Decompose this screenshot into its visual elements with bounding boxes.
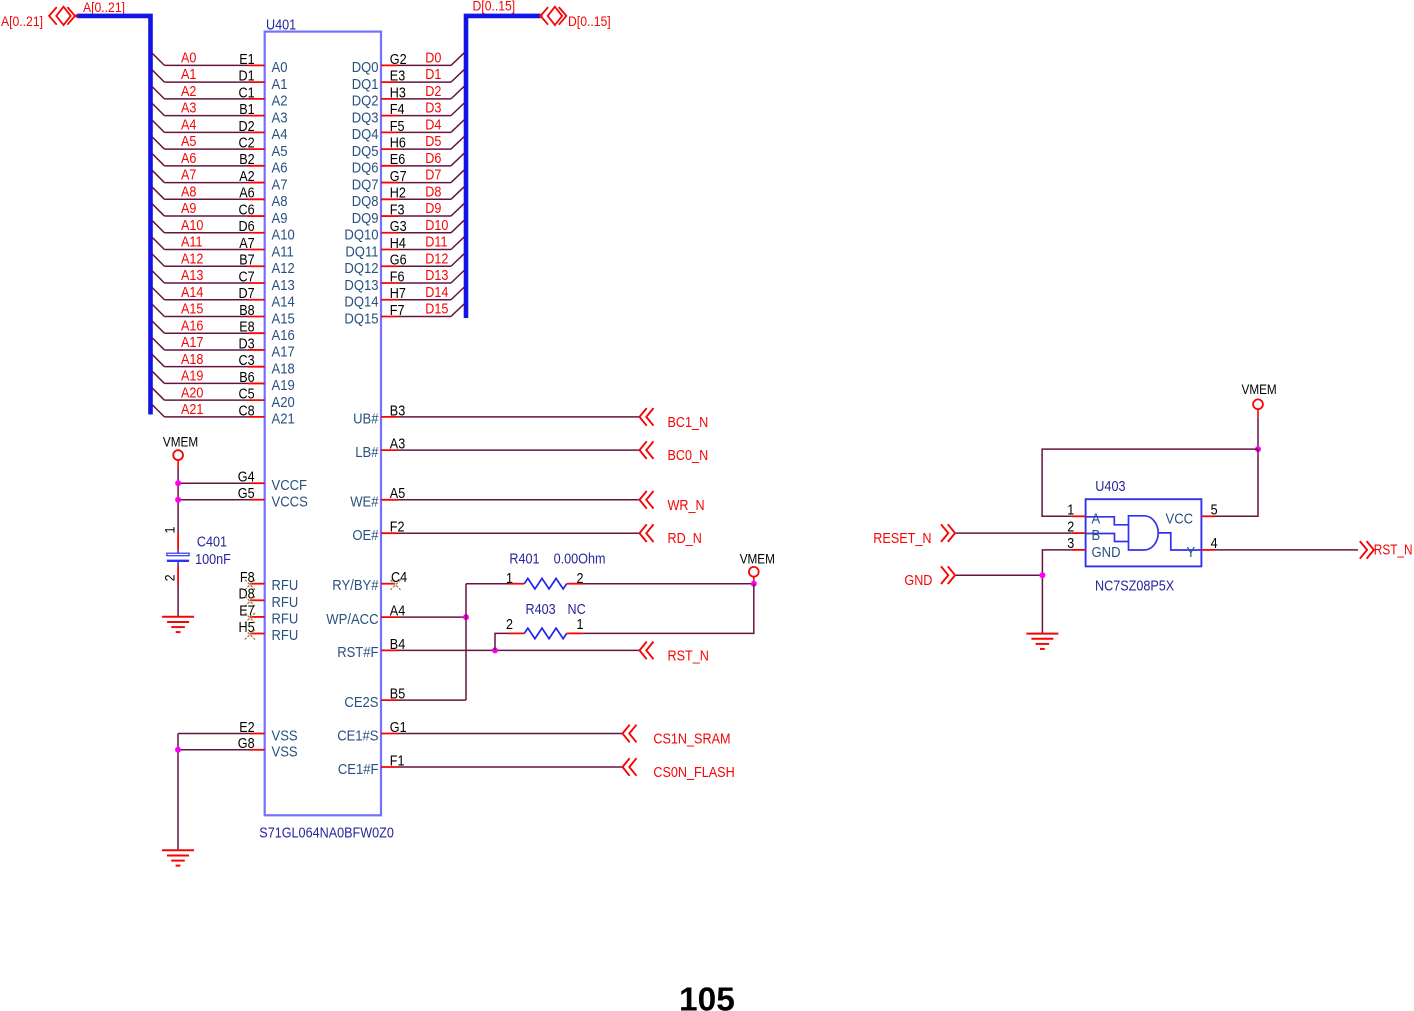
svg-text:DQ3: DQ3	[352, 109, 379, 126]
junction R401 pin2 - VMEM	[751, 581, 757, 587]
ground (below U403)	[1026, 634, 1058, 649]
svg-text:D7: D7	[239, 286, 255, 302]
port CS1N_SRAM	[623, 725, 731, 748]
svg-text:C3: C3	[239, 353, 255, 369]
port BC1_N	[640, 408, 709, 431]
wire R403 pin2 to RST#F net	[495, 633, 509, 650]
svg-text:B2: B2	[239, 152, 254, 168]
svg-text:2: 2	[1067, 519, 1074, 535]
svg-text:VSS: VSS	[272, 744, 298, 761]
svg-text:G3: G3	[390, 219, 407, 235]
pin A10 (D6) wire + bus entry	[152, 218, 295, 244]
svg-text:A13: A13	[272, 277, 295, 294]
svg-text:DQ2: DQ2	[352, 93, 379, 110]
page number 105	[679, 981, 735, 1011]
pin A8 (A6) wire + bus entry	[152, 184, 288, 210]
svg-text:G6: G6	[390, 253, 407, 269]
svg-text:DQ13: DQ13	[344, 277, 378, 294]
AND gate U403 NC7SZ08P5X (body)	[1067, 479, 1217, 595]
pin A17 (D3) wire + bus entry	[152, 335, 295, 361]
svg-text:GND: GND	[904, 573, 932, 589]
svg-text:5: 5	[1211, 503, 1218, 519]
svg-text:D3: D3	[239, 336, 255, 352]
junction VMEM - VCCF	[175, 480, 181, 486]
svg-text:A16: A16	[181, 318, 203, 334]
wire pin 4 to port RST_N	[1215, 549, 1358, 551]
svg-text:A4: A4	[181, 117, 196, 133]
svg-text:1: 1	[577, 617, 584, 633]
pin DQ13 (F6) wire + bus entry	[344, 268, 464, 294]
svg-text:A[0..21]: A[0..21]	[1, 13, 43, 29]
wire RESET_N to pin 2	[956, 532, 1072, 534]
svg-text:A9: A9	[181, 201, 196, 217]
svg-text:A3: A3	[181, 101, 196, 117]
svg-text:A10: A10	[181, 218, 203, 234]
port RESET_N (input)	[873, 524, 955, 547]
svg-text:D2: D2	[239, 119, 255, 135]
svg-text:H4: H4	[390, 236, 406, 252]
svg-text:RST_N: RST_N	[1374, 542, 1413, 558]
svg-text:DQ9: DQ9	[352, 210, 379, 227]
svg-text:A21: A21	[272, 411, 295, 428]
svg-text:DQ12: DQ12	[344, 260, 378, 277]
port WR_N	[640, 491, 705, 514]
svg-text:A6: A6	[239, 186, 254, 202]
port RD_N	[640, 524, 702, 547]
svg-text:A13: A13	[181, 268, 203, 284]
pin DQ1 (E3) wire + bus entry	[352, 67, 465, 93]
svg-text:D1: D1	[239, 69, 255, 85]
port BC0_N	[640, 441, 709, 464]
svg-text:A15: A15	[272, 310, 295, 327]
svg-text:C5: C5	[239, 387, 255, 403]
svg-text:A17: A17	[181, 335, 203, 351]
svg-text:CS0N_FLASH: CS0N_FLASH	[653, 765, 734, 781]
svg-text:E1: E1	[239, 52, 254, 68]
svg-text:A2: A2	[239, 169, 254, 185]
port CS0N_FLASH	[623, 758, 735, 781]
svg-text:D12: D12	[425, 251, 448, 267]
pin DQ9 (F3) wire + bus entry	[352, 201, 465, 227]
junction WP/ACC - R401 net	[463, 614, 469, 620]
pin DQ15 (F7) wire + bus entry	[344, 302, 464, 328]
svg-text:F5: F5	[390, 119, 405, 135]
pin A2 (C1) wire + bus entry	[152, 84, 288, 110]
pin RST#F (B4) wire to port RST_N	[337, 637, 639, 661]
pin LB# (A3) wire to port BC0_N	[355, 437, 639, 461]
svg-text:F7: F7	[390, 303, 405, 319]
pin DQ14 (H7) wire + bus entry	[344, 285, 464, 311]
svg-text:B6: B6	[239, 370, 254, 386]
svg-text:A15: A15	[181, 302, 203, 318]
pin DQ6 (E6) wire + bus entry	[352, 151, 465, 177]
svg-text:A[0..21]: A[0..21]	[83, 0, 125, 15]
wire R401 pin2 to VMEM	[582, 583, 753, 585]
svg-text:A20: A20	[181, 385, 203, 401]
pin A13 (C7) wire + bus entry	[152, 268, 295, 294]
pin DQ3 (F4) wire + bus entry	[352, 101, 465, 127]
svg-text:C1: C1	[239, 85, 255, 101]
power symbol VMEM (R401)	[740, 551, 775, 576]
pin WE# (A5) wire to port WR_N	[350, 486, 639, 510]
svg-text:C8: C8	[239, 403, 255, 419]
svg-text:D8: D8	[425, 184, 441, 200]
svg-text:A12: A12	[272, 260, 295, 277]
svg-text:A18: A18	[181, 352, 203, 368]
svg-text:GND: GND	[1092, 544, 1121, 561]
svg-text:A18: A18	[272, 360, 295, 377]
pin A5 (C2) wire + bus entry	[152, 134, 288, 160]
svg-text:100nF: 100nF	[195, 552, 231, 568]
svg-text:3: 3	[1067, 536, 1074, 552]
svg-text:D7: D7	[425, 168, 441, 184]
svg-text:CE1#S: CE1#S	[337, 727, 378, 744]
ground (below C401)	[162, 617, 194, 632]
junction GND port	[1039, 572, 1045, 578]
svg-text:D15: D15	[425, 302, 448, 318]
svg-text:A10: A10	[272, 227, 295, 244]
svg-text:DQ1: DQ1	[352, 76, 379, 93]
junction VMEM - VCC wire	[1255, 446, 1261, 452]
svg-text:WP/ACC: WP/ACC	[326, 611, 378, 628]
svg-text:RFU: RFU	[272, 594, 299, 611]
pin RFU (H5) no-connect	[239, 620, 299, 644]
svg-text:A5: A5	[181, 134, 196, 150]
wire VMEM (U403) down	[1257, 409, 1259, 449]
port GND (input)	[904, 566, 955, 589]
svg-text:E3: E3	[390, 69, 405, 85]
svg-text:A12: A12	[181, 251, 203, 267]
svg-text:D2: D2	[425, 84, 441, 100]
svg-text:A14: A14	[272, 294, 295, 311]
svg-text:VCC: VCC	[1166, 511, 1194, 528]
wire VCC loop to pin 1	[1042, 449, 1258, 516]
pin RFU (E7) no-connect	[239, 603, 298, 627]
svg-text:C7: C7	[239, 269, 255, 285]
svg-text:A0: A0	[272, 59, 288, 76]
pin WP/ACC (A4) wire	[326, 604, 466, 628]
svg-text:RESET_N: RESET_N	[873, 531, 931, 547]
wire VMEM down to C401 and pins G4/G5	[177, 460, 179, 533]
svg-text:0.00Ohm: 0.00Ohm	[554, 552, 606, 568]
svg-text:C2: C2	[239, 135, 255, 151]
svg-text:NC7SZ08P5X: NC7SZ08P5X	[1095, 579, 1174, 595]
svg-text:F4: F4	[390, 102, 405, 118]
pin DQ7 (G7) wire + bus entry	[352, 168, 465, 194]
svg-text:D5: D5	[425, 134, 441, 150]
pin A6 (B2) wire + bus entry	[152, 151, 288, 177]
svg-text:A6: A6	[272, 160, 288, 177]
svg-text:B: B	[1092, 527, 1101, 544]
svg-text:1: 1	[1067, 503, 1074, 519]
pin DQ12 (G6) wire + bus entry	[344, 251, 464, 277]
svg-text:D11: D11	[425, 235, 447, 251]
pin A15 (B8) wire + bus entry	[152, 302, 295, 328]
svg-text:D6: D6	[239, 219, 255, 235]
svg-text:DQ7: DQ7	[352, 176, 379, 193]
svg-text:F6: F6	[390, 269, 405, 285]
pin A4 (D2) wire + bus entry	[152, 117, 288, 143]
svg-text:RY/BY#: RY/BY#	[332, 577, 379, 594]
svg-text:A1: A1	[272, 76, 288, 93]
power symbol VMEM (U403)	[1242, 382, 1277, 409]
svg-text:1: 1	[162, 526, 178, 533]
svg-text:A9: A9	[272, 210, 288, 227]
svg-text:B8: B8	[239, 303, 254, 319]
pin A0 (E1) wire + bus entry	[152, 51, 288, 77]
svg-text:A11: A11	[181, 235, 203, 251]
svg-text:DQ5: DQ5	[352, 143, 379, 160]
svg-text:R401: R401	[509, 552, 539, 568]
wire GND port to pin 3 and ground	[956, 550, 1072, 634]
bus D[0..15] (blue)	[466, 16, 541, 318]
svg-text:OE#: OE#	[352, 527, 379, 544]
svg-text:DQ0: DQ0	[352, 59, 379, 76]
svg-text:DQ15: DQ15	[344, 310, 378, 327]
svg-text:F3: F3	[390, 202, 405, 218]
port RST_N (right output)	[1360, 541, 1413, 559]
svg-text:A: A	[1092, 510, 1101, 527]
svg-text:NC: NC	[568, 602, 586, 618]
svg-text:DQ14: DQ14	[344, 294, 378, 311]
svg-text:VMEM: VMEM	[740, 551, 775, 566]
pin CE1#S (G1) wire to port CS1N_SRAM	[337, 720, 622, 744]
svg-text:G2: G2	[390, 52, 407, 68]
wire VMEM stub (R401)	[753, 576, 755, 584]
svg-text:A7: A7	[272, 176, 288, 193]
resistor R401 0.00Ohm	[506, 552, 606, 589]
pin A11 (A7) wire + bus entry	[152, 235, 294, 261]
svg-text:S71GL064NA0BFW0Z0: S71GL064NA0BFW0Z0	[259, 826, 394, 842]
resistor R403 NC	[506, 602, 586, 639]
pin A19 (B6) wire + bus entry	[152, 369, 295, 395]
svg-text:VSS: VSS	[272, 727, 298, 744]
svg-text:U403: U403	[1095, 479, 1125, 495]
bus label D[0..15]	[473, 0, 516, 14]
svg-text:DQ4: DQ4	[352, 126, 379, 143]
svg-text:A7: A7	[239, 236, 254, 252]
pin OE# (F2) wire to port RD_N	[352, 520, 639, 544]
svg-text:D4: D4	[425, 117, 441, 133]
svg-text:2: 2	[506, 617, 513, 633]
svg-text:A19: A19	[272, 377, 295, 394]
pin DQ11 (H4) wire + bus entry	[345, 235, 464, 261]
svg-text:C6: C6	[239, 202, 255, 218]
svg-text:R403: R403	[526, 602, 556, 618]
svg-text:105: 105	[679, 981, 735, 1011]
svg-text:H6: H6	[390, 135, 406, 151]
svg-text:RFU: RFU	[272, 627, 299, 644]
svg-text:RD_N: RD_N	[668, 531, 702, 547]
svg-text:E8: E8	[239, 320, 254, 336]
port RST_N	[640, 642, 709, 665]
off-page connector D[0..15] (right)	[539, 7, 611, 29]
svg-text:DQ8: DQ8	[352, 193, 379, 210]
svg-text:A19: A19	[181, 369, 203, 385]
pin DQ4 (F5) wire + bus entry	[352, 117, 465, 143]
svg-text:BC0_N: BC0_N	[668, 448, 709, 464]
pin A20 (C5) wire + bus entry	[152, 385, 295, 411]
wire C401 to ground	[177, 585, 179, 617]
svg-text:D0: D0	[425, 51, 441, 67]
svg-text:A3: A3	[272, 109, 288, 126]
svg-text:H3: H3	[390, 85, 406, 101]
svg-text:D13: D13	[425, 268, 448, 284]
svg-text:VMEM: VMEM	[1242, 382, 1277, 397]
svg-text:DQ6: DQ6	[352, 160, 379, 177]
junction RST#F - R403 net	[492, 647, 498, 653]
pin A7 (A2) wire + bus entry	[152, 168, 288, 194]
pin A12 (B7) wire + bus entry	[152, 251, 295, 277]
svg-text:VMEM: VMEM	[163, 434, 198, 449]
pin DQ5 (H6) wire + bus entry	[352, 134, 465, 160]
pin A3 (B1) wire + bus entry	[152, 101, 288, 127]
svg-text:D1: D1	[425, 67, 441, 83]
svg-text:DQ10: DQ10	[344, 227, 378, 244]
svg-text:H2: H2	[390, 186, 406, 202]
svg-text:UB#: UB#	[353, 411, 379, 428]
svg-text:RFU: RFU	[272, 610, 299, 627]
svg-text:D9: D9	[425, 201, 441, 217]
svg-text:A14: A14	[181, 285, 203, 301]
svg-text:H7: H7	[390, 286, 406, 302]
svg-text:A8: A8	[181, 184, 196, 200]
svg-text:A17: A17	[272, 344, 295, 361]
svg-text:BC1_N: BC1_N	[668, 415, 709, 431]
svg-text:CS1N_SRAM: CS1N_SRAM	[653, 732, 730, 748]
svg-text:A0: A0	[181, 51, 196, 67]
svg-text:A21: A21	[181, 402, 203, 418]
svg-text:A16: A16	[272, 327, 295, 344]
pin A18 (C3) wire + bus entry	[152, 352, 295, 378]
svg-text:LB#: LB#	[355, 444, 379, 461]
svg-text:A8: A8	[272, 193, 288, 210]
svg-text:A1: A1	[181, 67, 196, 83]
pin DQ0 (G2) wire + bus entry	[352, 51, 465, 77]
svg-text:D14: D14	[425, 285, 448, 301]
pin A14 (D7) wire + bus entry	[152, 285, 295, 311]
svg-text:B7: B7	[239, 253, 254, 269]
pin DQ8 (H2) wire + bus entry	[352, 184, 465, 210]
pin RFU (D8) no-connect	[239, 587, 299, 611]
svg-text:A4: A4	[272, 126, 288, 143]
svg-text:A2: A2	[272, 93, 288, 110]
pin A16 (E8) wire + bus entry	[152, 318, 295, 344]
svg-text:RST#F: RST#F	[337, 644, 378, 661]
pin UB# (B3) wire to port BC1_N	[353, 403, 639, 427]
svg-text:A20: A20	[272, 394, 295, 411]
capacitor C401 100nF	[162, 526, 231, 584]
bus label A[0..21]	[83, 0, 125, 15]
pin A21 (C8) wire + bus entry	[152, 402, 295, 428]
pin RFU (F8) no-connect	[240, 570, 298, 594]
svg-text:E6: E6	[390, 152, 405, 168]
pin VCCF (G4) wire	[178, 470, 307, 494]
svg-text:A11: A11	[272, 243, 294, 260]
svg-text:A7: A7	[181, 168, 196, 184]
svg-text:D[0..15]: D[0..15]	[473, 0, 516, 14]
svg-text:B1: B1	[239, 102, 254, 118]
IC U401 S71GL064NA0BFW0Z0 (body)	[259, 17, 394, 841]
svg-text:A6: A6	[181, 151, 196, 167]
svg-text:CE1#F: CE1#F	[338, 761, 379, 778]
wire pin 5 to VMEM	[1215, 449, 1258, 516]
svg-text:WE#: WE#	[350, 494, 379, 511]
svg-text:WR_N: WR_N	[668, 498, 705, 514]
wire VMEM down to R403 pin1	[582, 584, 753, 634]
svg-text:G7: G7	[390, 169, 407, 185]
svg-text:2: 2	[162, 574, 178, 581]
svg-text:D3: D3	[425, 101, 441, 117]
power symbol VMEM (C401 branch)	[163, 434, 198, 460]
pin CE1#F (F1) wire to port CS0N_FLASH	[338, 753, 623, 777]
svg-text:D[0..15]: D[0..15]	[568, 13, 611, 29]
bus A[0..21] (blue)	[78, 16, 151, 415]
svg-text:VCCF: VCCF	[272, 477, 308, 494]
svg-text:DQ11: DQ11	[345, 243, 378, 260]
svg-text:VCCS: VCCS	[272, 494, 308, 511]
svg-text:A5: A5	[272, 143, 288, 160]
pin CE2S (B5) wire	[344, 687, 466, 711]
svg-text:C401: C401	[197, 534, 227, 550]
svg-text:CE2S: CE2S	[344, 694, 378, 711]
pin A9 (C6) wire + bus entry	[152, 201, 288, 227]
svg-text:D6: D6	[425, 151, 441, 167]
pin VSS (E2) wire	[178, 720, 298, 744]
ground (below VSS)	[162, 850, 194, 865]
wire vertical R401 pin1 to CE2S	[465, 584, 467, 700]
pin RY/BY# (C4) no-connect	[332, 570, 407, 594]
svg-text:A2: A2	[181, 84, 196, 100]
svg-text:Y: Y	[1187, 544, 1196, 561]
wire VSS to ground	[177, 734, 179, 851]
svg-text:D10: D10	[425, 218, 448, 234]
wire R401 pin1 to vertical	[466, 583, 509, 585]
pin VCCS (G5) wire	[178, 486, 308, 510]
pin DQ10 (G3) wire + bus entry	[344, 218, 464, 244]
svg-text:RST_N: RST_N	[668, 648, 709, 664]
junction VSS	[175, 747, 181, 753]
off-page connector A[0..21] (left)	[1, 7, 79, 29]
svg-text:RFU: RFU	[272, 577, 299, 594]
pin DQ2 (H3) wire + bus entry	[352, 84, 465, 110]
junction VMEM - VCCS	[175, 497, 181, 503]
pin VSS (G8) wire	[178, 736, 298, 760]
pin A1 (D1) wire + bus entry	[152, 67, 288, 93]
